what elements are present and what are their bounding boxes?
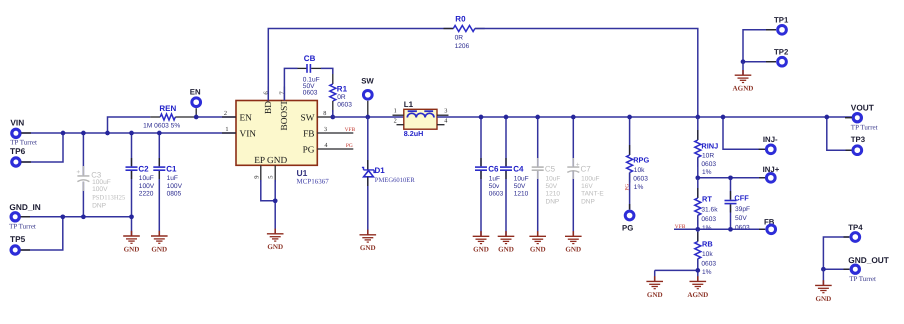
- op-amp U1 MCP16367 (regulator IC): [236, 101, 317, 166]
- capacitor C3 (DNP, 100uF 100V PSD113H25): [82, 133, 84, 175]
- pin 8 SW of U1: [317, 116, 333, 118]
- junction C3 top on VIN rail: [81, 131, 86, 136]
- svg-text:GND_IN: GND_IN: [9, 202, 40, 212]
- ground GND under D1: [367, 230, 369, 235]
- svg-text:2: 2: [224, 110, 227, 117]
- svg-text:TP Turret: TP Turret: [849, 275, 876, 283]
- svg-text:0R: 0R: [337, 94, 346, 101]
- ground AGND under RB: [697, 276, 699, 281]
- svg-text:10uF: 10uF: [139, 175, 154, 182]
- ground GND under C4: [505, 231, 507, 236]
- wire EN riser from VIN rail: [108, 117, 151, 133]
- svg-text:8.2uH: 8.2uH: [404, 129, 424, 138]
- svg-text:TP6: TP6: [10, 146, 26, 156]
- svg-text:0603: 0603: [701, 161, 716, 168]
- svg-text:GND: GND: [360, 244, 376, 252]
- ground GND under C1: [158, 231, 160, 236]
- svg-text:C3: C3: [91, 170, 101, 179]
- svg-text:100V: 100V: [92, 186, 108, 193]
- svg-text:10k: 10k: [634, 167, 645, 174]
- wire stub at PG test point: [629, 204, 631, 210]
- svg-text:100V: 100V: [139, 183, 155, 190]
- svg-text:RT: RT: [702, 195, 712, 204]
- capacitor C2 10uF 100V 2220: [131, 133, 133, 166]
- svg-text:1uF: 1uF: [489, 175, 500, 182]
- wire stub at TP6: [21, 161, 31, 163]
- junction RB/AGND: [695, 268, 700, 273]
- junction C1 top on VIN rail: [157, 131, 162, 136]
- svg-text:C7: C7: [581, 164, 592, 173]
- wire TP4 to GND riser: [823, 237, 849, 269]
- svg-text:GND_OUT: GND_OUT: [848, 255, 889, 265]
- svg-text:RB: RB: [702, 239, 713, 248]
- svg-text:10uF: 10uF: [514, 175, 529, 182]
- svg-text:VIN: VIN: [240, 129, 257, 139]
- capacitor CFF 39pF 50V 0603: [730, 178, 732, 200]
- capacitor C7 100uF 16V TANT-E DNP: [572, 117, 574, 166]
- svg-text:RPG: RPG: [633, 156, 649, 165]
- svg-text:CB: CB: [304, 54, 316, 63]
- pin 2 of L1: [397, 124, 404, 126]
- svg-text:TP Turret: TP Turret: [9, 223, 36, 231]
- svg-text:AGND: AGND: [687, 291, 708, 299]
- svg-text:1: 1: [394, 108, 397, 115]
- junction U1 ground pins: [273, 198, 278, 203]
- junction C2 on GND_IN rail: [129, 214, 134, 219]
- svg-text:U1: U1: [297, 168, 308, 178]
- wire FB row: [674, 228, 765, 230]
- capacitor C6 1uF 50v 0603: [480, 117, 482, 166]
- svg-text:L1: L1: [404, 100, 414, 109]
- svg-text:BD: BD: [264, 101, 274, 114]
- resistor R1 0R 0603: [332, 74, 334, 84]
- junction TP3 riser on VOUT rail: [824, 115, 829, 120]
- junction TP4/GND_OUT: [821, 267, 826, 272]
- node FB (test point): [759, 228, 765, 230]
- ground GND left of AGND: [654, 276, 656, 281]
- junction EN: [194, 115, 199, 120]
- capacitor C1 1uF 100V 0805: [158, 133, 160, 166]
- pin 4 PG of U1: [317, 148, 353, 150]
- svg-text:R0: R0: [455, 14, 466, 23]
- node INJ- (test point): [759, 148, 765, 150]
- svg-text:EN: EN: [240, 113, 253, 123]
- svg-text:BOOST: BOOST: [280, 100, 290, 131]
- pin 1 of L1: [393, 114, 404, 116]
- svg-text:1uF: 1uF: [167, 175, 178, 182]
- svg-text:C1: C1: [166, 164, 177, 173]
- pin 9 of U1 (EP): [260, 165, 262, 182]
- svg-text:PMEG6010ER: PMEG6010ER: [375, 177, 416, 184]
- wire SW pin to L1: [333, 116, 404, 118]
- wire RT to FB row: [697, 215, 699, 229]
- wire to AGND: [742, 62, 744, 75]
- resistor RB 10k 0603 1%: [697, 229, 699, 241]
- pin 3 of L1: [437, 114, 449, 116]
- pin 5 of U1 (GND): [274, 165, 276, 182]
- ground GND under C6: [480, 231, 482, 236]
- pin 3 FB of U1: [317, 132, 353, 134]
- svg-text:+: +: [76, 169, 80, 176]
- wire stub at TP3: [846, 149, 852, 151]
- svg-text:0603: 0603: [489, 191, 504, 198]
- junction CFF on FB row: [728, 227, 733, 232]
- svg-text:50V: 50V: [735, 215, 747, 222]
- svg-text:3: 3: [444, 108, 447, 115]
- svg-text:VOUT: VOUT: [851, 103, 874, 113]
- junction C5 on VOUT rail: [535, 115, 540, 120]
- svg-text:EN: EN: [190, 88, 201, 97]
- svg-text:R1: R1: [337, 84, 348, 93]
- svg-text:GND: GND: [473, 246, 489, 254]
- svg-text:GND: GND: [267, 243, 283, 251]
- node VIN (TP turret): [12, 129, 20, 137]
- svg-text:FB: FB: [303, 129, 314, 139]
- wire INJ+ row: [698, 177, 765, 179]
- junction TP1/TP2: [741, 59, 746, 64]
- pin 7 BOOST of U1: [283, 87, 285, 101]
- junction SW/D1: [365, 115, 370, 120]
- wire R0 to VOUT rail: [475, 29, 698, 118]
- svg-text:4: 4: [324, 142, 328, 149]
- svg-text:GND: GND: [565, 246, 581, 254]
- svg-text:DNP: DNP: [92, 202, 107, 209]
- svg-text:100uF: 100uF: [92, 179, 111, 186]
- svg-text:D1: D1: [375, 166, 386, 175]
- junction R1/SW: [330, 115, 335, 120]
- junction GND_IN/TP5: [60, 214, 65, 219]
- ground AGND under TP2: [742, 70, 744, 75]
- wire VOUT rail from L1 to VOUT turret: [437, 116, 852, 118]
- wire GND_OUT to GND riser: [823, 268, 849, 270]
- junction RT/RB on FB row: [695, 227, 700, 232]
- wire BD pin 6 to top rail: [268, 29, 453, 101]
- wire R0/RINJ riser junction: [695, 115, 700, 120]
- svg-text:VFB: VFB: [345, 127, 356, 133]
- wire to GND: [822, 269, 824, 285]
- svg-text:GND: GND: [530, 246, 546, 254]
- wire EN test point stem: [195, 108, 197, 117]
- svg-text:TP1: TP1: [774, 16, 789, 25]
- svg-text:GND: GND: [647, 291, 663, 299]
- ground GND under GND_OUT: [822, 280, 824, 285]
- wire SW test point stem: [367, 101, 369, 117]
- wire TP5 to GND_IN rail: [21, 217, 63, 250]
- svg-text:0603: 0603: [735, 224, 750, 231]
- wire TP3 branch: [827, 117, 852, 150]
- svg-text:0603: 0603: [303, 90, 318, 97]
- svg-text:7: 7: [279, 91, 286, 95]
- svg-text:100V: 100V: [167, 183, 183, 190]
- wire TP6 to VIN rail: [21, 133, 63, 162]
- svg-text:16V: 16V: [581, 183, 593, 190]
- wire REN to U1 pin EN: [196, 116, 236, 118]
- wire R1 bottom to SW net: [332, 110, 334, 117]
- svg-text:SW: SW: [301, 113, 315, 123]
- svg-text:GND: GND: [498, 246, 514, 254]
- resistor RPG 10k 0603 1%: [629, 117, 631, 155]
- resistor REN 1M 0603 5%: [150, 116, 160, 118]
- junction EN riser on VIN rail: [105, 131, 110, 136]
- pin 2 EN of U1: [222, 116, 236, 118]
- svg-text:2220: 2220: [139, 191, 154, 198]
- svg-text:EP GND: EP GND: [254, 156, 287, 166]
- svg-text:VIN: VIN: [10, 118, 24, 128]
- resistor RINJ 10R 0603 1%: [697, 117, 699, 140]
- svg-text:1206: 1206: [455, 43, 470, 50]
- wire stub at TP4: [844, 236, 850, 238]
- svg-text:5: 5: [268, 175, 275, 179]
- svg-text:50v: 50v: [489, 183, 500, 190]
- svg-text:C4: C4: [513, 164, 524, 173]
- ground GND under C7: [572, 231, 574, 236]
- ground GND under C2: [131, 231, 133, 236]
- capacitor CB 0.1uF 50V 0603: [298, 67, 307, 69]
- svg-text:0603: 0603: [633, 176, 648, 183]
- node INJ+ (test point): [759, 177, 765, 179]
- svg-text:1M 0603 5%: 1M 0603 5%: [143, 123, 180, 130]
- resistor RT 31.6k 0603 1%: [697, 178, 699, 198]
- svg-text:10k: 10k: [702, 251, 713, 258]
- svg-text:100uF: 100uF: [581, 175, 599, 182]
- junction C7 on VOUT rail: [571, 115, 576, 120]
- svg-text:C6: C6: [488, 164, 499, 173]
- svg-text:9: 9: [253, 175, 260, 179]
- junction C4 on VOUT rail: [504, 115, 509, 120]
- svg-text:39pF: 39pF: [735, 206, 750, 213]
- svg-text:PG: PG: [622, 224, 633, 233]
- svg-text:AGND: AGND: [733, 85, 754, 93]
- svg-text:DNP: DNP: [581, 198, 595, 205]
- wire U1 pins 9/5 to ground: [261, 180, 275, 234]
- svg-text:GND: GND: [124, 245, 140, 253]
- diode D1 PMEG6010ER (schottky): [367, 117, 369, 170]
- wire TP1 to AGND riser: [743, 30, 776, 62]
- pin 4 of L1: [437, 124, 445, 126]
- svg-text:DNP: DNP: [546, 198, 560, 205]
- svg-text:3: 3: [324, 126, 327, 133]
- node PG (test point): [625, 211, 634, 220]
- svg-text:6: 6: [263, 91, 270, 95]
- svg-text:CFF: CFF: [734, 193, 749, 202]
- pin 1 VIN of U1: [222, 132, 236, 134]
- svg-text:REN: REN: [159, 104, 176, 113]
- svg-text:0R: 0R: [455, 35, 464, 42]
- svg-text:31.6k: 31.6k: [701, 207, 718, 214]
- wire stub at VIN turret: [21, 132, 31, 134]
- svg-text:50V: 50V: [546, 183, 558, 190]
- node TP5 (turret): [11, 246, 19, 254]
- svg-text:4: 4: [444, 117, 448, 124]
- wire BOOST pin 7 to CB: [284, 68, 297, 100]
- svg-text:8: 8: [323, 110, 326, 117]
- junction RPG on VOUT rail: [627, 115, 632, 120]
- wire VIN rail to U1 pin VIN: [21, 132, 236, 134]
- svg-text:2: 2: [394, 117, 397, 124]
- wire RINJ to INJ+ node: [697, 157, 699, 178]
- wire stub at TP2: [766, 61, 776, 63]
- node GND_IN (TP turret): [11, 213, 19, 221]
- svg-text:+: +: [576, 162, 580, 169]
- inductor L1 8.2uH: [404, 109, 437, 129]
- junction C2 top on VIN rail: [129, 131, 134, 136]
- pin 6 BD of U1: [267, 87, 269, 101]
- svg-text:PG: PG: [346, 143, 353, 149]
- svg-text:TP5: TP5: [10, 234, 26, 244]
- wire GND_IN rail: [21, 216, 132, 218]
- svg-text:1: 1: [225, 126, 228, 133]
- svg-text:TANT-E: TANT-E: [581, 191, 604, 198]
- wire stub at GND_OUT turret: [844, 268, 850, 270]
- svg-text:1%: 1%: [634, 184, 644, 191]
- junction VIN/TP6: [61, 131, 66, 136]
- svg-text:TP3: TP3: [851, 135, 866, 144]
- wire stub at GND_IN turret: [21, 216, 30, 218]
- svg-text:10uF: 10uF: [546, 175, 561, 182]
- svg-text:TP Turret: TP Turret: [851, 124, 878, 132]
- svg-text:SW: SW: [361, 77, 374, 86]
- svg-text:1%: 1%: [702, 269, 712, 276]
- svg-text:GND: GND: [816, 295, 832, 303]
- svg-text:C2: C2: [138, 164, 149, 173]
- svg-text:MCP16367: MCP16367: [297, 178, 330, 186]
- svg-text:1210: 1210: [546, 191, 561, 198]
- resistor R0 0R 1206: [444, 28, 454, 30]
- svg-text:1210: 1210: [514, 191, 529, 198]
- junction RINJ/RT/INJ+: [695, 175, 700, 180]
- capacitor C5 10uF 50V 1210 DNP: [537, 117, 539, 166]
- wire TP2 to AGND riser: [743, 61, 776, 63]
- svg-text:TP4: TP4: [848, 223, 863, 232]
- wire RPG to PG test point: [629, 173, 631, 210]
- svg-text:PSD113H25: PSD113H25: [92, 194, 126, 201]
- ground GND under U1: [274, 229, 276, 234]
- wire RB bottom to grounds: [655, 259, 698, 282]
- svg-text:PG: PG: [303, 145, 315, 155]
- svg-text:0603: 0603: [701, 216, 716, 223]
- svg-text:0603: 0603: [337, 101, 352, 108]
- svg-text:INJ-: INJ-: [763, 135, 778, 144]
- node TP6 (turret): [12, 158, 20, 166]
- wire CB to R1 top: [321, 68, 333, 74]
- junction C6 on VOUT rail: [479, 115, 484, 120]
- junction CFF top on INJ+ row: [728, 175, 733, 180]
- svg-text:GND: GND: [151, 245, 167, 253]
- svg-text:0603: 0603: [701, 261, 716, 268]
- ground GND under C5: [537, 231, 539, 236]
- svg-text:RINJ: RINJ: [701, 141, 718, 150]
- junction C3 bottom on GND_IN rail: [81, 214, 86, 219]
- svg-text:VFB: VFB: [675, 224, 686, 230]
- wire stub at VOUT turret: [845, 117, 852, 119]
- svg-text:50V: 50V: [514, 183, 526, 190]
- junction INJ- riser on VOUT rail: [721, 115, 726, 120]
- wire stub at TP5: [21, 249, 30, 251]
- svg-text:10R: 10R: [702, 153, 714, 160]
- wire stub at TP1: [766, 29, 776, 31]
- svg-text:0805: 0805: [167, 191, 182, 198]
- wire INJ- branch: [723, 117, 765, 149]
- svg-text:C5: C5: [545, 164, 556, 173]
- svg-text:TP2: TP2: [774, 48, 789, 57]
- svg-text:1%: 1%: [702, 169, 712, 176]
- capacitor C4 10uF 50V 1210: [505, 117, 507, 166]
